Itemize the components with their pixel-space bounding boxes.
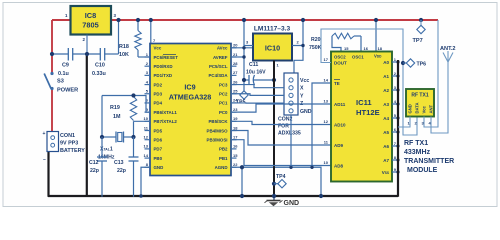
svg-text:MODULE: MODULE [407, 167, 438, 174]
pin 3 label IC8 [114, 13, 117, 18]
svg-text:PD2: PD2 [154, 82, 163, 87]
test point TP7 [413, 18, 426, 44]
svg-text:GND: GND [154, 165, 164, 170]
svg-text:TP7: TP7 [413, 38, 423, 44]
svg-text:AD9: AD9 [334, 143, 343, 148]
svg-text:–: – [43, 157, 46, 163]
svg-text:22: 22 [233, 162, 238, 167]
wire XTAL1 [102, 96, 150, 138]
microcontroller IC9 ATMEGA328 [150, 44, 231, 176]
svg-text:CON2: CON2 [278, 117, 293, 123]
svg-text:PB1: PB1 [219, 156, 228, 161]
svg-text:OSC2: OSC2 [334, 55, 346, 60]
test point TP6 [401, 59, 426, 68]
svg-text:21: 21 [233, 52, 238, 57]
wire IC10 in [244, 45, 253, 47]
svg-text:PC2: PC2 [219, 92, 228, 97]
svg-text:GND: GND [300, 109, 312, 115]
test point TP4 [272, 174, 286, 188]
connector CON2 ADXL335 [278, 73, 312, 137]
junction IC9 Vcc rail [149, 18, 153, 22]
svg-text:OSC1: OSC1 [352, 55, 364, 60]
capacitor C13 [114, 137, 139, 197]
svg-text:R19: R19 [110, 105, 120, 111]
svg-text:18: 18 [233, 125, 238, 130]
junction IC8 pin2-cap [85, 52, 89, 56]
wire IC10 gnd [273, 61, 275, 197]
svg-text:PD6: PD6 [154, 138, 163, 143]
svg-text:AVcc: AVcc [217, 46, 228, 51]
wire RF ant pin [431, 62, 448, 133]
svg-text:PB3/MOSI: PB3/MOSI [207, 138, 228, 143]
junction AVcc [242, 46, 245, 49]
svg-text:7805: 7805 [82, 21, 98, 30]
junction IC10 out tee [301, 44, 304, 47]
pin 3 label IC10 [246, 40, 249, 45]
svg-text:A4: A4 [383, 116, 389, 121]
svg-text:12: 12 [144, 135, 149, 140]
svg-text:PB5/SCK: PB5/SCK [208, 119, 228, 124]
svg-text:A5: A5 [383, 130, 389, 135]
wire AD11 [231, 104, 331, 112]
wire cap row [52, 20, 119, 54]
svg-text:750K: 750K [309, 45, 322, 51]
wire IC9 Vcc [150, 20, 152, 44]
svg-text:Y: Y [300, 93, 304, 99]
svg-text:VSS: VSS [382, 170, 389, 175]
pin 7 label IC9 [153, 38, 156, 43]
svg-text:DATA: DATA [415, 102, 420, 113]
svg-text:13: 13 [144, 144, 149, 149]
svg-text:10K: 10K [119, 52, 129, 58]
svg-text:Vcc: Vcc [300, 78, 309, 84]
capacitor C9 [58, 48, 73, 77]
connector CON1 [43, 131, 86, 163]
svg-text:PB0: PB0 [154, 156, 163, 161]
wire AGND drop [241, 167, 243, 197]
svg-text:PD5: PD5 [154, 128, 163, 133]
wire battery negative [47, 151, 49, 197]
wire battery positive [51, 20, 53, 73]
svg-text:S3: S3 [57, 79, 64, 85]
svg-text:AD11: AD11 [334, 102, 346, 107]
svg-text:A0: A0 [383, 60, 389, 65]
junction crystal left [100, 135, 104, 139]
IC11 left pin numbers [324, 57, 329, 165]
svg-text:PB2: PB2 [219, 147, 228, 152]
svg-text:AVREF: AVREF [213, 55, 228, 60]
svg-text:+: + [43, 131, 46, 137]
junction CON2 gnd [289, 166, 292, 169]
svg-text:HT12E: HT12E [356, 108, 380, 117]
RF TX1 pin numbers [408, 121, 432, 126]
svg-text:PD4: PD4 [154, 101, 163, 106]
svg-text:IC11: IC11 [356, 98, 372, 107]
svg-text:AD8: AD8 [334, 163, 343, 168]
svg-text:LM1117–3.3: LM1117–3.3 [254, 26, 291, 33]
wire XTAL2 [134, 121, 151, 137]
svg-text:VDD: VDD [374, 54, 382, 59]
junction 5V branch rail [242, 18, 246, 22]
svg-text:26: 26 [233, 79, 238, 84]
svg-text:12: 12 [324, 119, 329, 124]
junction C11 left [242, 78, 246, 82]
wire IC8 ground return [86, 54, 88, 197]
svg-text:CON1: CON1 [60, 133, 75, 139]
switch S3 [44, 72, 78, 94]
pin 18 label IC11 [378, 46, 383, 51]
svg-text:Vcc: Vcc [422, 105, 427, 113]
junction TE gnd [310, 166, 313, 169]
svg-text:PC1: PC1 [219, 101, 228, 106]
svg-text:ANT.2: ANT.2 [440, 46, 456, 52]
svg-text:X: X [300, 86, 304, 92]
svg-text:13: 13 [324, 99, 329, 104]
svg-text:IC9: IC9 [184, 83, 195, 92]
capacitor C11 [244, 62, 274, 85]
wire AVREF [231, 56, 244, 58]
svg-text:IC8: IC8 [85, 11, 97, 20]
svg-text:ADXL335: ADXL335 [278, 131, 301, 137]
svg-text:PD0/RXD: PD0/RXD [154, 64, 173, 69]
svg-text:10: 10 [324, 160, 329, 165]
wire X axis [231, 85, 284, 88]
encoder IC11 HT12E [331, 52, 392, 182]
pin 2 label IC10 [297, 40, 300, 45]
svg-text:16: 16 [364, 46, 369, 51]
wire AD8 [231, 140, 331, 166]
IC9 right pin stubs [231, 43, 238, 168]
svg-text:0.1u: 0.1u [58, 71, 69, 77]
svg-text:15: 15 [344, 46, 349, 51]
wire CON2 gnd [290, 115, 292, 167]
wire IC9 GND [141, 167, 150, 197]
svg-text:ATMEGA328: ATMEGA328 [169, 93, 212, 102]
regulator IC8 7805 [71, 6, 112, 35]
junction Vdd rail [374, 18, 378, 22]
junction battery-cap [50, 52, 54, 56]
junction C10 rail [116, 18, 120, 22]
IC9 left pin stubs [144, 52, 150, 167]
RF TX1 caption [404, 140, 454, 174]
svg-text:17: 17 [233, 135, 238, 140]
wire AD9 [231, 131, 331, 145]
svg-text:TRANSMITTER: TRANSMITTER [404, 158, 454, 165]
wire DOUT [321, 29, 417, 135]
resistor R18 [119, 20, 150, 58]
svg-text:25: 25 [233, 89, 238, 94]
svg-text:BATTERY: BATTERY [60, 148, 85, 154]
svg-text:DOUT: DOUT [334, 60, 347, 65]
pin 1 label IC10 [277, 63, 280, 68]
svg-text:PC0: PC0 [219, 110, 228, 115]
junction IC10 out rail [301, 18, 305, 22]
svg-text:20: 20 [233, 43, 238, 48]
svg-text:A2: A2 [383, 88, 389, 93]
svg-text:PC3: PC3 [219, 82, 228, 87]
wire AVcc [231, 47, 253, 49]
svg-text:27: 27 [233, 70, 238, 75]
svg-text:15: 15 [233, 153, 238, 158]
capacitor C12 [89, 137, 107, 197]
pin 1 label IC8 [65, 13, 68, 18]
junction AGND drop top [240, 165, 244, 169]
crystal X1 [98, 132, 134, 161]
svg-text:433MHz: 433MHz [404, 149, 431, 156]
svg-text:14: 14 [144, 153, 149, 158]
svg-text:22p: 22p [90, 168, 99, 174]
regulator IC10 [253, 34, 292, 61]
svg-text:C9: C9 [62, 63, 69, 69]
svg-text:A3: A3 [383, 102, 389, 107]
svg-text:C11: C11 [249, 62, 258, 68]
svg-text:C10: C10 [95, 63, 105, 69]
svg-text:AD10: AD10 [334, 122, 346, 127]
svg-text:C12: C12 [89, 160, 99, 166]
svg-text:R18: R18 [119, 44, 129, 50]
wire TE [312, 83, 331, 167]
svg-text:RF TX1: RF TX1 [404, 140, 428, 147]
pin 15 label IC11 [344, 46, 349, 51]
svg-text:RF TX1: RF TX1 [411, 93, 428, 99]
junction IC9 gnd rail [139, 194, 143, 198]
svg-text:A1: A1 [383, 74, 389, 79]
capacitor C10 [92, 48, 106, 77]
wire IC10 out [292, 20, 303, 46]
svg-text:IC10: IC10 [265, 44, 280, 53]
wire 5V branch [243, 20, 245, 91]
ground bus IC11 [397, 60, 399, 197]
svg-text:9V PP3: 9V PP3 [60, 141, 78, 147]
svg-text:10: 10 [144, 116, 149, 121]
svg-text:PB6/XTAL1: PB6/XTAL1 [154, 110, 178, 115]
wire IC9 AGND [231, 167, 321, 197]
svg-text:Vcc: Vcc [154, 46, 162, 51]
svg-text:PB4/MISO: PB4/MISO [207, 128, 229, 133]
antenna ANT.2 [440, 46, 456, 62]
IC11 address pin stubs [392, 57, 400, 174]
svg-text:TP6: TP6 [417, 62, 427, 68]
svg-text:28: 28 [233, 61, 238, 66]
pin 2 label IC8 [83, 37, 86, 42]
junction R19 top [131, 93, 135, 97]
junction TP4 [272, 194, 276, 198]
junction R18 rail [136, 18, 140, 22]
wire +V rail [52, 19, 438, 21]
svg-text:PB7/XTAL2: PB7/XTAL2 [154, 119, 178, 124]
svg-text:17: 17 [324, 57, 329, 62]
svg-text:A6: A6 [383, 144, 389, 149]
test point TP5 [236, 91, 248, 106]
wire Y axis [231, 94, 284, 96]
junction AVREF [242, 55, 245, 58]
svg-text:PC6/RESET: PC6/RESET [154, 55, 179, 60]
svg-text:TP4: TP4 [276, 174, 286, 180]
svg-text:C13: C13 [114, 160, 124, 166]
junction AGND rail [240, 194, 244, 198]
svg-text:ANT: ANT [429, 104, 434, 113]
wire CON2 Vcc feed [294, 46, 303, 74]
svg-text:PC5/SCL: PC5/SCL [209, 64, 228, 69]
svg-text:TE: TE [334, 81, 340, 86]
svg-text:POWER: POWER [57, 88, 78, 94]
svg-text:10u 16V: 10u 16V [246, 70, 266, 76]
svg-text:PC4/SDA: PC4/SDA [208, 73, 228, 78]
wire RF vcc pin [424, 20, 438, 127]
wire IC8 pin2 [86, 35, 88, 55]
wire IC11 Vdd [375, 20, 377, 52]
ground rail [48, 195, 398, 197]
junction IC10 gnd rail [272, 194, 276, 198]
junction CON2 gnd rail [319, 194, 323, 198]
svg-text:0.33u: 0.33u [92, 71, 106, 77]
label LM1117 [254, 26, 291, 33]
svg-text:R20: R20 [311, 37, 321, 43]
svg-text:16: 16 [233, 144, 238, 149]
rf module RF TX1 [406, 89, 434, 117]
wire AD10 [231, 121, 331, 124]
svg-text:GND: GND [284, 200, 300, 207]
svg-text:PD7: PD7 [154, 147, 163, 152]
svg-text:22p: 22p [117, 168, 126, 174]
svg-text:GND: GND [408, 104, 413, 113]
svg-text:23: 23 [233, 107, 238, 112]
svg-text:A7: A7 [383, 158, 389, 163]
svg-text:14: 14 [324, 78, 329, 83]
pin 16 label IC11 [364, 46, 369, 51]
svg-text:PD1/TXD: PD1/TXD [154, 73, 173, 78]
junction C11 right [272, 78, 276, 82]
junction crystal right [131, 135, 135, 139]
svg-text:1M: 1M [113, 114, 121, 120]
wire RF gnd pin [398, 117, 410, 128]
ground symbol [265, 196, 300, 207]
wire Z axis [231, 102, 284, 104]
svg-text:19: 19 [233, 116, 238, 121]
svg-text:PD3: PD3 [154, 92, 163, 97]
wire switch to CON1 [51, 89, 53, 132]
svg-text:AGND: AGND [215, 165, 228, 170]
resistor R20 [309, 33, 361, 51]
svg-text:18: 18 [378, 46, 383, 51]
resistor R19 [110, 97, 137, 121]
